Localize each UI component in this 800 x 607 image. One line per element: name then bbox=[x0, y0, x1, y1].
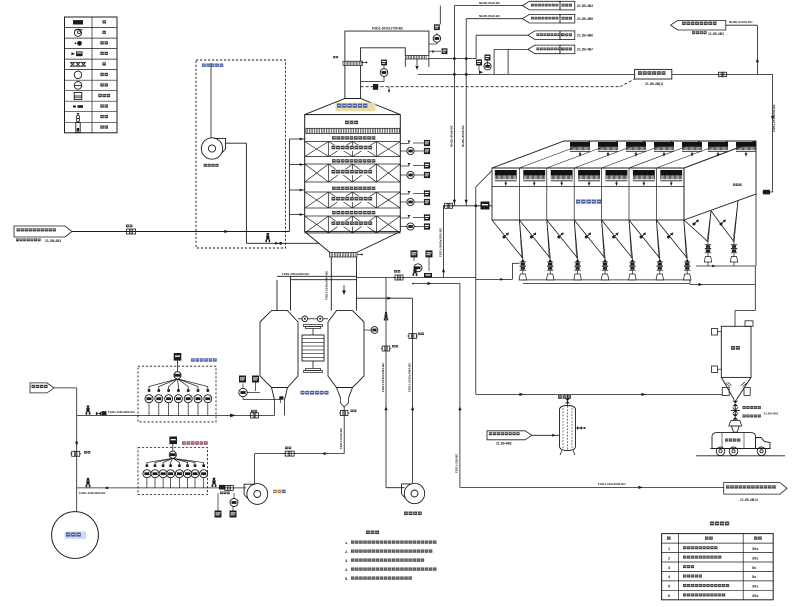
instrument boxes lower cluster bbox=[411, 250, 418, 257]
AIG1 supply box bbox=[174, 353, 182, 361]
svg-text:FGD1-2000x1750-BC: FGD1-2000x1750-BC bbox=[372, 26, 404, 30]
instrument cluster catalyst layer 4 bbox=[400, 217, 409, 219]
wire: dilution fan suction from enclosure top bbox=[210, 63, 212, 138]
legend row 4 symbol bbox=[71, 52, 75, 55]
dashed enclosure: outlet AIG bbox=[138, 448, 208, 495]
expansion joint on AIG1 feed bbox=[251, 413, 259, 418]
wire: AIG1 drop bbox=[177, 361, 179, 372]
reactor R1 body bbox=[305, 115, 401, 232]
hopper 2 level switch bbox=[530, 232, 536, 238]
legend row 4 name bbox=[100, 52, 108, 55]
rear hopper 2 discharge valves bbox=[733, 242, 735, 245]
wire: NH3 line 2 vertical bbox=[465, 19, 467, 206]
wire: flue gas to bag filter inlet bbox=[444, 205, 493, 207]
wire: AIG2 feed line bbox=[77, 487, 208, 489]
AIG2 supply box bbox=[169, 437, 177, 445]
GGH rotary heater cold-side vessel bbox=[260, 311, 298, 388]
off-page connector: to ammonia gas heating system bbox=[671, 20, 726, 30]
label: flag ref bbox=[692, 31, 707, 34]
svg-text:1.: 1. bbox=[345, 541, 348, 545]
legend row 9 symbol bbox=[73, 106, 76, 108]
wire: hopper collect down to silo bbox=[754, 266, 756, 311]
elbow fitting lower cluster bbox=[424, 273, 432, 278]
label: rectifier bbox=[345, 121, 358, 125]
svg-text:21.2B-4B6: 21.2B-4B6 bbox=[577, 34, 593, 38]
hopper 3 level switch bbox=[557, 232, 563, 238]
cone aeration pads bbox=[726, 382, 747, 387]
bag filter compartment dividers bbox=[518, 168, 520, 220]
label: motor lock valve bbox=[743, 406, 761, 409]
flow arrow into downcomer bbox=[416, 59, 418, 65]
catalyst layer 3 X-grid bbox=[305, 191, 401, 193]
wire: stub from flag1 line to duct instrument bbox=[439, 6, 441, 25]
hopper 1 level switch bbox=[503, 232, 509, 238]
ash truck tank bbox=[712, 433, 756, 449]
svg-text:21.2B-4B(1): 21.2B-4B(1) bbox=[645, 82, 663, 86]
label: notes heading bbox=[366, 531, 379, 535]
svg-text:FGD1-273x4000-BC: FGD1-273x4000-BC bbox=[772, 103, 776, 132]
temperature tap upper bbox=[364, 329, 372, 331]
temperature instrument on duct bbox=[429, 50, 441, 52]
legend row 7 symbol bbox=[74, 82, 82, 90]
ash truck cab bbox=[756, 438, 771, 449]
instrument cluster catalyst layer 1 bbox=[400, 143, 409, 145]
svg-text:21.2B-4B8: 21.2B-4B8 bbox=[496, 442, 512, 446]
bag filter housing front face bbox=[492, 168, 684, 220]
svg-text:FGD1-2142x2064-BC: FGD1-2142x2064-BC bbox=[381, 362, 385, 392]
bag filter housing right face bbox=[684, 141, 756, 220]
svg-text:30s: 30s bbox=[752, 547, 758, 551]
label: tube cooler (4) row 3 bbox=[332, 187, 375, 190]
bag filter hopper 2 bbox=[519, 220, 550, 258]
reactor R1 neck bbox=[344, 65, 346, 98]
label: inlet AIG title bbox=[191, 358, 217, 361]
instrument cluster catalyst layer 3 bbox=[400, 193, 409, 195]
svg-text:FGD1-2142x2064-BC: FGD1-2142x2064-BC bbox=[407, 362, 411, 392]
svg-text:FGD1-2064x2064-BC: FGD1-2064x2064-BC bbox=[282, 272, 309, 276]
label: dilution tank (highlighted) bbox=[65, 532, 87, 539]
junction dot bbox=[412, 283, 414, 285]
svg-text:30s: 30s bbox=[752, 585, 758, 589]
off-page connector: to coarse ash silo (wide arrow) bbox=[724, 483, 787, 495]
silo level switches bbox=[712, 329, 718, 336]
wire: pulse air header bbox=[475, 187, 477, 394]
svg-text:21.2B-4B13: 21.2B-4B13 bbox=[740, 498, 758, 502]
svg-text:2: 2 bbox=[668, 556, 670, 560]
legend row 1 symbol bbox=[73, 20, 83, 24]
label: bag filter name bbox=[576, 200, 601, 204]
ground line bbox=[696, 455, 785, 457]
svg-text:3.: 3. bbox=[345, 559, 348, 563]
ash silo body bbox=[721, 326, 751, 377]
label: GGH name bbox=[301, 391, 329, 395]
svg-text:1: 1 bbox=[668, 547, 670, 551]
svg-text:NH3D-219x6-BC: NH3D-219x6-BC bbox=[729, 20, 753, 24]
AIG2 nozzle branches bbox=[147, 458, 173, 467]
shutoff valve AIG1 feed bbox=[96, 412, 101, 416]
reactor outlet flange bbox=[330, 253, 358, 258]
wire: reactor outlet tap to booster inlet x=412.6 bbox=[357, 297, 413, 299]
off-page connector flag 1 bbox=[522, 1, 560, 10]
hopper 4 level switch bbox=[585, 232, 591, 238]
wire: riser to reactor distribution header bbox=[288, 139, 290, 232]
node: neck tap bbox=[366, 62, 368, 64]
GGH cold-side inlet funnel bbox=[272, 388, 275, 401]
label: truck bbox=[725, 439, 740, 442]
catalyst layer 4 X-grid bbox=[305, 215, 401, 217]
label: inlet flag text bbox=[17, 228, 56, 231]
wire: dilution supply riser bbox=[54, 387, 77, 389]
wire: AIG1 feed line bbox=[77, 414, 216, 416]
label: catalyst layer 4 (white backed) bbox=[330, 221, 375, 227]
label: ID fan (highlighted) bbox=[273, 490, 281, 493]
inlet transition diagonal bbox=[476, 171, 492, 188]
legend row 6 name bbox=[100, 73, 108, 76]
wire: rear hopper manifold bbox=[696, 265, 755, 267]
svg-text:NH3D-80x8-BC: NH3D-80x8-BC bbox=[479, 1, 501, 5]
truck chassis and wheels bbox=[710, 448, 771, 450]
wire: hot air line from direct-fired heater bbox=[418, 73, 635, 75]
hopper 5 discharge valves bbox=[631, 258, 633, 262]
svg-text:FGD1-108x4000-BC: FGD1-108x4000-BC bbox=[108, 410, 136, 414]
legend row 8 symbol bbox=[74, 92, 82, 99]
steam branch tick bbox=[388, 87, 390, 91]
flow arrow toward fan bbox=[322, 452, 326, 455]
legend row 11 symbol bbox=[76, 123, 80, 133]
silo discharge valve stack bbox=[734, 400, 736, 401]
expansion joint before ID fan bbox=[225, 485, 234, 490]
svg-text:4.: 4. bbox=[345, 568, 348, 572]
legend row 3 symbol bbox=[75, 42, 77, 44]
reactor R1 stack neck flange bbox=[343, 61, 363, 65]
hopper 2 discharge valves bbox=[549, 258, 551, 262]
svg-text:21.2B-4B1: 21.2B-4B1 bbox=[764, 412, 779, 416]
legend row 6 symbol bbox=[74, 71, 82, 79]
rear hopper 1 level switch bbox=[693, 219, 699, 225]
wire: GGH bypass pair lines bbox=[277, 275, 357, 277]
silo cone bbox=[721, 377, 734, 399]
catalyst layer 2 X-grid bbox=[305, 163, 401, 165]
label: tube cooler (4) row 2 bbox=[332, 159, 375, 162]
svg-text:21.2B-4B7: 21.2B-4B7 bbox=[577, 48, 593, 52]
wire: fluidizing air branch to hopper 1 bbox=[476, 278, 508, 280]
svg-text:5s: 5s bbox=[752, 566, 756, 570]
impulse line from GGH instrument to funnel bbox=[242, 397, 244, 400]
GGH side instruments bbox=[239, 376, 246, 383]
GGH rotor top flange bbox=[304, 325, 323, 327]
bag filter housing top face bbox=[492, 141, 756, 168]
label: silo name bbox=[731, 346, 740, 350]
wire: air into buffer tank bbox=[532, 434, 560, 436]
label: dry ash loader bbox=[743, 415, 761, 418]
label: tube cooler (4) row 1 bbox=[332, 136, 375, 139]
bag filter comb band bottom line bbox=[492, 186, 684, 188]
silo support legs bbox=[722, 388, 729, 396]
wire: ash conveying line to big silo bbox=[460, 486, 724, 488]
label: dilution fan system title bbox=[202, 64, 223, 67]
buffer tank bbox=[560, 406, 576, 451]
label: catalyst layer 1 (white backed) bbox=[330, 145, 375, 151]
pulse headers back row bbox=[570, 142, 590, 147]
label: cluster note bbox=[220, 492, 230, 495]
manual valve on dilution line bbox=[265, 233, 270, 243]
wire: booster outlet riser x=386 bbox=[385, 278, 387, 488]
label: startup table title bbox=[710, 522, 729, 526]
rear hopper 2 level switch bbox=[720, 219, 726, 225]
legend row 1 name bbox=[102, 20, 106, 23]
inlet damper cluster bbox=[481, 202, 490, 210]
flow arrow main line bbox=[224, 230, 229, 233]
flow arrow AIG2 bbox=[104, 486, 108, 489]
off-page connector: flue gas from boiler ID fan bbox=[14, 226, 72, 237]
manual valve before ID fan bbox=[212, 478, 217, 488]
duct stubs below flange bbox=[404, 59, 406, 67]
wire: 4 cooling-air stubs into reactor bbox=[289, 138, 304, 140]
drain instruments before ID fan bbox=[215, 511, 222, 518]
hopper 4 discharge valves bbox=[604, 258, 606, 262]
hopper 7 level switch bbox=[667, 232, 673, 238]
label: dilution fan bbox=[204, 164, 219, 167]
dashed enclosure: dilution air fan system bbox=[196, 60, 286, 248]
off-page connector: ammonia dilution supply bbox=[30, 383, 54, 393]
label: right face ref bbox=[733, 184, 742, 186]
legend row 3 name bbox=[100, 41, 108, 44]
GGH rotor matrix bbox=[302, 335, 324, 361]
wire: right face vertical from heater flag line bbox=[772, 74, 774, 192]
label: see drawing ref bbox=[16, 239, 41, 242]
duct: reactor hopper to GGH hot side bbox=[330, 257, 332, 311]
bag filter hopper 5 bbox=[602, 220, 633, 258]
off-page connector flag 2 bbox=[522, 14, 560, 23]
bag filter hopper 4 bbox=[574, 220, 605, 258]
wire: heater line riser to top-right flag bbox=[756, 25, 758, 74]
label: SCR reactor name (highlighted) bbox=[336, 103, 376, 112]
legend table frame bbox=[65, 17, 118, 133]
svg-text:3: 3 bbox=[668, 566, 670, 570]
GGH rotary heater hot-side vessel bbox=[328, 311, 364, 388]
ID fan (induced draft) bbox=[247, 484, 268, 505]
legend row 10 symbol bbox=[77, 113, 80, 115]
svg-text:NH3D-80x8-BC: NH3D-80x8-BC bbox=[479, 14, 501, 18]
legend row 2 symbol bbox=[74, 29, 81, 36]
GGH rotor bearings bbox=[302, 316, 308, 322]
svg-text:21.2B-4B4: 21.2B-4B4 bbox=[577, 4, 593, 8]
legend row 9 name bbox=[100, 104, 108, 107]
expansion joint on main line bbox=[127, 229, 136, 234]
wire: AIG2 line to fan suction bbox=[208, 487, 247, 489]
screw conveyor trough bbox=[521, 279, 690, 281]
rear hopper 1 discharge valves bbox=[707, 242, 709, 245]
GGH hot-side outlet funnel bbox=[337, 388, 341, 399]
svg-text:21.2B-4B2: 21.2B-4B2 bbox=[708, 32, 724, 36]
bag filter top face perspective lines bbox=[519, 141, 591, 168]
bag filter rear hopper 2 bbox=[711, 211, 734, 242]
off-page connector flag 4 bbox=[528, 45, 560, 54]
label: buffer tank bbox=[558, 395, 571, 399]
flow arrow AIG1 bbox=[230, 414, 236, 418]
legend row 11 name bbox=[100, 125, 108, 128]
GGH rotor bottom flange bbox=[306, 369, 321, 371]
legend row 5 name bbox=[102, 62, 106, 65]
valve on heater line bbox=[719, 72, 727, 77]
direct-fired heater furnace bbox=[635, 69, 672, 79]
svg-text:FGD1-159-BC: FGD1-159-BC bbox=[455, 453, 459, 473]
svg-text:2.: 2. bbox=[345, 550, 348, 554]
label: outlet AIG title bbox=[182, 441, 208, 444]
reactor bottom hopper bbox=[305, 232, 330, 253]
wire: cluster line to drop at x443.5 bbox=[357, 277, 476, 279]
bag filter hopper 3 bbox=[547, 220, 578, 258]
wire: steam line (dashed) bbox=[361, 86, 620, 88]
extra inlet valve glyph bbox=[219, 485, 226, 490]
wire: dilution air header to flag3 bbox=[429, 58, 476, 60]
hopper 1 discharge valves bbox=[522, 258, 524, 262]
wire: flag3 connects at corner bbox=[494, 48, 528, 50]
instrument cluster catalyst layer 2 bbox=[400, 165, 409, 167]
off-page connector flag 3 bbox=[528, 31, 560, 40]
svg-text:FGD1-2142-BC: FGD1-2142-BC bbox=[339, 427, 343, 449]
legend row 2 name bbox=[102, 31, 106, 34]
hopper 3 discharge valves bbox=[577, 258, 579, 262]
manual valve lower cluster bbox=[413, 266, 418, 276]
svg-text:FGD1-108x4000-BC: FGD1-108x4000-BC bbox=[79, 491, 107, 495]
duct: GGH cold side riser bbox=[276, 280, 278, 311]
catalyst layer 1 X-grid bbox=[305, 141, 401, 143]
wire: line to ash silo flag x=459.9 bbox=[413, 283, 460, 285]
svg-text:FGD1-159x4000-BC: FGD1-159x4000-BC bbox=[598, 482, 627, 486]
wire: conveyor discharge to silo bbox=[690, 284, 755, 286]
expansion joint lower cluster bbox=[395, 275, 403, 280]
wire: flag4 drop to heater line bbox=[493, 49, 495, 74]
dilution tank T1 bbox=[52, 512, 99, 559]
svg-text:5.: 5. bbox=[345, 577, 348, 581]
wire: bag filter right corner drop bbox=[755, 194, 757, 266]
bag filter hopper 1 bbox=[492, 220, 523, 258]
booster fan bbox=[404, 483, 424, 503]
reactor rectifier hatched band bbox=[306, 128, 400, 133]
manual valve AIG2 feed bbox=[86, 478, 91, 488]
svg-text:FGD1-2142x2064-BC: FGD1-2142x2064-BC bbox=[325, 270, 329, 300]
svg-text:NH3D-80x8-BC: NH3D-80x8-BC bbox=[449, 124, 453, 147]
svg-text:21.2B-4B5: 21.2B-4B5 bbox=[577, 17, 593, 21]
AIG2 distributor bbox=[169, 451, 176, 458]
wire: main flue gas line bbox=[72, 231, 289, 233]
wire: dilution air to reactor hopper bbox=[246, 242, 319, 244]
AIG1 nozzle branches bbox=[149, 379, 178, 392]
label: catalyst layer 2 (white backed) bbox=[330, 170, 375, 176]
svg-text:30s: 30s bbox=[752, 594, 758, 598]
expansion joint on ID fan inlet bbox=[285, 451, 294, 456]
manual valve AIG1 feed bbox=[86, 405, 91, 415]
instruments on heater line bbox=[485, 55, 491, 61]
hopper 5 level switch bbox=[612, 232, 618, 238]
wire: GGH outlet line into ID fan bbox=[254, 454, 256, 484]
legend row 8 name bbox=[98, 94, 110, 97]
legend row 5 symbol bbox=[70, 65, 86, 67]
silo vent filter bbox=[745, 321, 753, 327]
startup sequence table bbox=[662, 534, 774, 600]
steam valve on riser bbox=[72, 451, 80, 456]
dilution fan M1 bbox=[201, 138, 222, 159]
svg-text:NH3D-80x8-BC: NH3D-80x8-BC bbox=[461, 124, 465, 147]
svg-text:FGD1-2645x3000-BC: FGD1-2645x3000-BC bbox=[439, 227, 443, 257]
right face inlet glyph bbox=[762, 191, 773, 193]
AIG1 distributor bbox=[174, 372, 181, 379]
hopper 6 level switch bbox=[640, 232, 646, 238]
dashed enclosure: inlet AIG bbox=[138, 366, 216, 422]
hopper 7 discharge valves bbox=[686, 258, 688, 262]
bag filter rear hopper 1 bbox=[684, 220, 708, 242]
wire: NH3 line 1 vertical bbox=[453, 6, 455, 206]
label: catalyst layer 3 (white backed) bbox=[330, 197, 375, 203]
instrument chain below top duct bbox=[381, 60, 387, 66]
pressure instrument on duct bbox=[434, 24, 440, 30]
label: tube cooler (4) row 4 bbox=[332, 211, 375, 214]
expansion joint on GGH outlet bbox=[340, 411, 348, 416]
startup table header bbox=[667, 537, 671, 540]
expansion joint at bag filter inlet bbox=[445, 203, 453, 208]
steam trap box bbox=[373, 84, 378, 90]
buffer tank top valve bbox=[567, 394, 569, 405]
buffer tank side valve bbox=[577, 426, 582, 430]
reactor R1 roof bbox=[305, 99, 401, 115]
duct flange hatch at downcomer bbox=[405, 55, 429, 59]
legend row 10 name bbox=[100, 115, 108, 118]
svg-text:21.2B-4B1: 21.2B-4B1 bbox=[45, 239, 62, 243]
legend row 7 name bbox=[100, 83, 108, 86]
svg-text:5: 5 bbox=[668, 585, 670, 589]
svg-text:30s: 30s bbox=[752, 556, 758, 560]
pulse headers front row bbox=[495, 170, 517, 175]
off-page connector: compressed air from station bbox=[487, 431, 532, 440]
svg-text:6: 6 bbox=[668, 594, 670, 598]
wire: GGH outlet to ID fan bbox=[343, 407, 345, 454]
hopper 6 discharge valves bbox=[659, 258, 661, 262]
wire: drop from inlet line to lower cluster bbox=[443, 206, 445, 278]
bag filter hopper 6 bbox=[629, 220, 660, 258]
wire: dilution fan outlet bbox=[226, 142, 247, 144]
svg-text:5s: 5s bbox=[752, 575, 756, 579]
duct: reactor outlet top duct bbox=[345, 31, 429, 61]
label: booster fan bbox=[404, 512, 422, 516]
bag filter hopper 7 bbox=[656, 220, 687, 258]
